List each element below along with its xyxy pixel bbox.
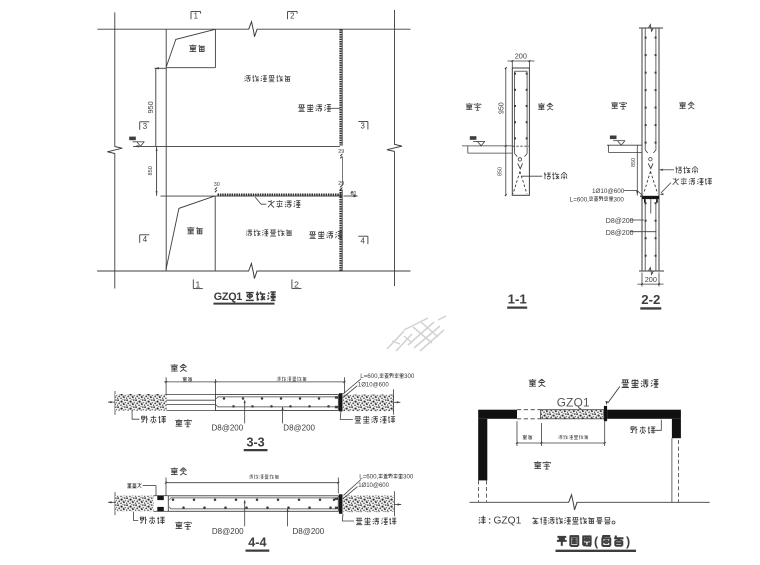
node rebar hooks xyxy=(645,150,648,153)
svg-text:30: 30 xyxy=(214,182,220,188)
svg-text:200: 200 xyxy=(515,52,527,61)
node level mark symbol xyxy=(613,140,625,142)
node vertical joint strip lower (hatched) xyxy=(341,190,343,272)
label tiny 窗洞 xyxy=(523,435,533,439)
label 水平拉缝板 + leader arrow xyxy=(661,183,671,193)
node rebar dots xyxy=(223,397,226,400)
label title 平面图（局部） xyxy=(557,536,591,546)
node section mark 3 (right) xyxy=(367,122,369,130)
node section view 3-3 xyxy=(108,364,415,450)
svg-text:D8@200: D8@200 xyxy=(606,218,634,225)
label tiny 窗洞 xyxy=(183,377,193,381)
wire right boundary vertical xyxy=(394,491,396,516)
label lower window text 窗洞 xyxy=(187,227,203,234)
svg-text:D8@200: D8@200 xyxy=(606,230,634,237)
node inner rebar lines upper with stirrups xyxy=(644,28,646,150)
node level mark symbol xyxy=(133,141,145,143)
svg-text:L=600,: L=600, xyxy=(570,196,589,203)
svg-text:850: 850 xyxy=(631,158,637,167)
node joint V mark xyxy=(648,163,653,168)
wire top wall line (horizontal, with break) xyxy=(97,28,249,30)
svg-text:2-2: 2-2 xyxy=(641,292,660,307)
label room 室内 xyxy=(466,103,481,110)
node joint circle xyxy=(518,158,521,161)
svg-text:950: 950 xyxy=(146,101,155,113)
dimension line (top) xyxy=(164,381,344,383)
label 竖向拉缝 + leader arrow xyxy=(622,379,659,387)
node top wall: GZQ1 concrete (stippled) xyxy=(541,410,604,419)
svg-text:300: 300 xyxy=(403,474,414,481)
wire bottom boundary line with break xyxy=(470,501,570,503)
svg-text:4: 4 xyxy=(143,235,148,244)
label upper window text 窗洞 xyxy=(189,45,205,52)
node section mark 1 (top) xyxy=(190,12,192,20)
svg-text:1: 1 xyxy=(194,11,198,20)
wire joint connecting line xyxy=(341,157,343,186)
watermark (faint) xyxy=(387,331,404,349)
svg-text:4: 4 xyxy=(361,236,366,245)
node level mark symbol xyxy=(473,140,485,142)
svg-text:1-1: 1-1 xyxy=(508,292,527,307)
label 结构梁 + leader arrow xyxy=(661,169,675,171)
label 剪力墙 + leader xyxy=(132,410,139,419)
svg-text:GZQ1: GZQ1 xyxy=(557,396,590,410)
node inner rebar lines with stirrups xyxy=(514,71,516,153)
node shear wall block right (stippled) xyxy=(343,395,393,412)
wire left boundary vertical xyxy=(114,391,116,415)
svg-text:L=600,: L=600, xyxy=(359,474,378,481)
node section mark 4 (left) xyxy=(139,235,141,243)
node shear wall block left (stippled) xyxy=(115,496,154,512)
node inner rebar lines + hooks xyxy=(218,396,337,398)
svg-text:200: 200 xyxy=(645,275,657,284)
node window glazing lines xyxy=(167,393,216,395)
svg-text:D8@200: D8@200 xyxy=(293,527,325,536)
wire right boundary vertical xyxy=(393,389,395,414)
dimension line xyxy=(517,442,605,444)
node rebar end squares xyxy=(335,497,338,500)
svg-text:1: 1 xyxy=(196,279,201,289)
label tiny 混凝土构造墙 xyxy=(277,377,307,381)
node plan view (partial) xyxy=(470,379,710,551)
node wall section outline xyxy=(512,68,529,195)
svg-text:1Ø10@600: 1Ø10@600 xyxy=(358,382,389,388)
node left joint plate marks xyxy=(154,495,169,497)
label room 室内 xyxy=(611,102,626,109)
label 竖向拉缝板 + leader xyxy=(340,412,353,420)
wire top break line xyxy=(639,27,663,29)
dimension 950 (vertical) xyxy=(155,68,157,146)
wire wall edge vertical line xyxy=(165,29,167,271)
node concrete wall bar outline xyxy=(215,394,217,410)
node top wall: window region (dashed edges) xyxy=(517,409,541,411)
node vertical joint tick (black) xyxy=(604,406,607,421)
node top wall: right part (black) xyxy=(607,410,681,419)
svg-text:D8@200: D8@200 xyxy=(283,424,315,433)
dimension line (top) xyxy=(166,482,339,484)
node section mark 1 (bottom) xyxy=(192,279,194,288)
label room 室外 xyxy=(171,468,187,476)
svg-text:D8@200: D8@200 xyxy=(212,527,244,536)
node inner rebar lines lower with stirrups xyxy=(644,203,646,271)
label concrete wall upper 混凝土构造墙 xyxy=(244,75,290,82)
svg-text:850: 850 xyxy=(148,166,154,175)
label tiny 混凝土构造墙 xyxy=(558,435,588,439)
svg-text:950: 950 xyxy=(498,102,505,114)
label 竖向拉缝板 + leader xyxy=(342,514,354,521)
wire right boundary line (vertical, with break) xyxy=(394,10,396,145)
label tiny 混凝土构造墙 xyxy=(249,475,279,479)
label joint width 30 (right, with arrow) xyxy=(344,195,358,197)
node joint V mark xyxy=(518,163,523,168)
node horizontal joint plate (black band) xyxy=(642,196,659,199)
node vertical joint strip upper (hatched) xyxy=(341,29,343,145)
node horizontal joint strip (hatched) xyxy=(161,195,343,197)
dimension lower (vertical, value) xyxy=(156,146,158,196)
svg-text:GZQ1: GZQ1 xyxy=(214,291,242,303)
svg-text:D8@200: D8@200 xyxy=(212,424,244,433)
node section view 1-1 xyxy=(462,52,567,308)
node rebar dots xyxy=(172,499,175,502)
label room 室内 xyxy=(534,461,550,469)
svg-text:300: 300 xyxy=(614,196,625,203)
svg-text:1Ø10@600: 1Ø10@600 xyxy=(592,188,625,195)
node structural beam dashed lines xyxy=(644,171,651,193)
node shear wall block right (stippled) xyxy=(343,496,393,512)
node vertical joint plate (black) xyxy=(339,393,343,411)
dimension 200 (top) xyxy=(511,61,513,68)
wire bottom break line xyxy=(639,270,664,272)
svg-text:3: 3 xyxy=(143,122,147,131)
svg-text:3-3: 3-3 xyxy=(246,435,264,449)
svg-text:2: 2 xyxy=(290,11,294,20)
wire left boundary vertical xyxy=(114,492,116,515)
label room 室内 xyxy=(175,522,191,530)
node structural beam dashed lines xyxy=(513,171,520,194)
node upper window opening xyxy=(214,29,216,67)
wire floor level lines xyxy=(607,144,642,146)
label vertical joint upper 竖向拉缝 + leader xyxy=(298,104,331,111)
dimension 950 + lower segment (vertical) xyxy=(505,68,507,195)
node inner rebar lines + hooks xyxy=(171,497,337,499)
node section view 4-4 xyxy=(108,468,414,551)
label vertical joint lower 竖向拉缝 xyxy=(309,231,342,238)
wire level line xyxy=(133,145,340,147)
dimension joint depth (vertical) xyxy=(636,145,638,195)
label 第二遍 + leader xyxy=(127,483,141,488)
wire floor level lines xyxy=(462,145,512,147)
svg-text:): ) xyxy=(626,535,630,549)
svg-text:850: 850 xyxy=(497,167,503,176)
node top wall: left corner (black) xyxy=(478,410,517,419)
node section view 2-2 xyxy=(570,25,712,309)
wire left axis line + arrow xyxy=(108,401,115,403)
label concrete wall lower 混凝土构造墙 xyxy=(246,229,292,236)
label horizontal joint 水平拉缝 + leader xyxy=(255,197,266,204)
label room 室外 xyxy=(171,364,187,372)
node elevation view GZQ1 xyxy=(97,10,410,304)
svg-text:2: 2 xyxy=(294,279,299,289)
wire right axis arrow xyxy=(395,504,402,506)
svg-text:1Ø10@600: 1Ø10@600 xyxy=(358,483,389,489)
node section mark 4 (right) xyxy=(367,236,369,244)
node vertical joint plate (black) xyxy=(339,494,343,514)
wire right axis arrow xyxy=(394,401,401,403)
node lower window opening xyxy=(214,196,216,271)
node right wall (black + dashed below) xyxy=(672,419,681,438)
wire left axis line + arrow xyxy=(108,501,115,503)
wire bottom wall line (horizontal, with break) xyxy=(97,270,249,272)
wire dashed slab line xyxy=(512,145,529,147)
svg-text:L=600,: L=600, xyxy=(360,373,379,380)
node section mark 2 (top) xyxy=(287,12,289,20)
svg-text:GZQ1: GZQ1 xyxy=(494,516,522,527)
label 剪力墙 + leader xyxy=(133,512,138,521)
label note 注：GZQ1 ... xyxy=(479,516,486,524)
label room 室内 xyxy=(175,419,191,427)
label 结构梁 + leader xyxy=(522,175,543,177)
label room 室外 xyxy=(529,379,545,387)
svg-text::: : xyxy=(488,516,491,527)
node section mark 3 (left) xyxy=(139,122,141,130)
node section mark 2 (bottom) xyxy=(291,279,293,288)
label room 室外 xyxy=(538,103,553,110)
node joint circle xyxy=(649,158,652,161)
label 剪力墙 + leader xyxy=(631,426,656,434)
node rebar end squares xyxy=(335,396,338,399)
node wall section edges xyxy=(641,28,643,271)
node concrete wall bar outline xyxy=(168,496,338,512)
dimension extension lines xyxy=(516,421,518,446)
wire left boundary line (vertical, with break) xyxy=(114,12,116,146)
svg-text:4-4: 4-4 xyxy=(248,536,266,550)
node rebar hooks xyxy=(515,154,518,157)
dimension 200 (bottom) xyxy=(641,273,643,287)
svg-text:3: 3 xyxy=(361,122,365,131)
label room 室外 xyxy=(679,102,694,109)
svg-text:300: 300 xyxy=(404,373,415,380)
node shear wall block left (stippled) xyxy=(115,394,167,411)
node left wall (black + dashed below) xyxy=(478,419,487,481)
